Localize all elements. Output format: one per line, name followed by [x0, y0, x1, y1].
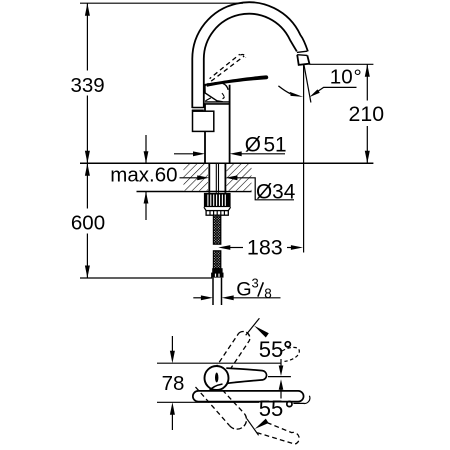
lever raised dashed side 2	[210, 54, 240, 78]
down arrow at axis	[280, 359, 282, 369]
lever raised dashed cap	[240, 55, 245, 58]
solid lever (plan)	[210, 368, 267, 391]
supply pipe	[213, 278, 222, 305]
10deg leader underline	[314, 87, 357, 94]
wire top extension line	[80, 2, 243, 4]
lever raised dashed side 1	[205, 56, 244, 86]
dimension O51 arrows	[174, 153, 195, 155]
svg-text:600: 600	[71, 212, 105, 235]
faucet body column	[205, 85, 230, 163]
dimension 183	[218, 245, 230, 250]
svg-text:55: 55	[259, 337, 283, 362]
lever tail over circle	[209, 384, 222, 391]
dimension O34 arrow	[225, 175, 237, 180]
svg-text:339: 339	[70, 74, 104, 97]
dimension 600 line	[86, 163, 88, 208]
upper dashed lever cap	[239, 331, 250, 340]
hose end fitting	[211, 268, 223, 277]
max60 leader arrow	[180, 177, 200, 179]
counter top line	[80, 162, 373, 164]
lever swing arc arrow	[278, 86, 290, 94]
handle sculpt ticks	[222, 93, 225, 99]
svg-text:G: G	[236, 278, 251, 300]
handle foot tick	[205, 98, 210, 101]
svg-text:8: 8	[264, 286, 272, 301]
outlet extension line right	[309, 63, 373, 65]
svg-text:Ø34: Ø34	[256, 180, 295, 203]
braided hose upper	[213, 215, 220, 244]
svg-text:max.60: max.60	[110, 164, 177, 187]
handle housing outline	[205, 83, 230, 102]
spout bar (plan)	[193, 391, 304, 402]
mounting nut knurled	[204, 193, 231, 215]
braided hose lower	[213, 251, 220, 269]
spout arc inner	[204, 14, 297, 108]
78 dimension arrows	[171, 336, 173, 353]
spout holder box	[193, 111, 214, 131]
svg-text:55: 55	[259, 396, 283, 421]
upper dashed lever side 1	[215, 333, 239, 369]
shank tube	[209, 163, 225, 193]
upper angle arrowhead	[254, 326, 269, 338]
shank inner lines	[216, 163, 218, 193]
G3/8 leader arrows	[193, 297, 203, 299]
pivot slot	[215, 373, 218, 383]
upper dashed leader hook	[282, 347, 299, 361]
up arrow at axis	[279, 379, 284, 390]
lower dashed lever side 2	[196, 387, 230, 426]
svg-text:183: 183	[247, 236, 283, 260]
lower angle arrowhead	[255, 419, 269, 429]
lever blade (solid)	[206, 75, 268, 86]
10 degree slant line	[304, 65, 311, 103]
spout arc outer	[192, 2, 308, 108]
600 bottom extension line	[80, 277, 212, 279]
upper lever axis extension line	[246, 318, 260, 335]
upper dashed lever side 2	[226, 341, 250, 377]
vertical extension line below outlet	[303, 65, 305, 253]
spout outlet aerator block	[297, 55, 309, 65]
78 bottom extension line	[157, 401, 259, 403]
lower leader hook	[293, 396, 309, 404]
lower far dashed stadium	[257, 423, 299, 445]
svg-text:10°: 10°	[330, 65, 362, 88]
body platform top line	[204, 103, 229, 105]
riser collar	[192, 108, 204, 111]
svg-text:3: 3	[252, 276, 259, 291]
lower lever axis extension line	[247, 419, 259, 436]
svg-text:210: 210	[349, 102, 385, 126]
counter hatch right	[227, 164, 252, 191]
78 top extension line	[157, 362, 281, 364]
counter bottom line	[137, 191, 252, 193]
handle neck curve	[223, 84, 228, 90]
lower dashed lever cap	[230, 414, 247, 430]
pivot circle	[205, 366, 229, 390]
lever axis thin line	[268, 376, 291, 378]
dimension 210 line	[366, 64, 368, 100]
svg-text:Ø51: Ø51	[245, 134, 287, 157]
counter hatch left	[184, 164, 209, 191]
lower dashed lever side 1	[217, 384, 244, 413]
dimension 339 line	[86, 3, 88, 70]
svg-text:78: 78	[162, 372, 185, 395]
spout outlet seam	[297, 51, 307, 55]
max60 dimension arrows	[145, 135, 147, 163]
